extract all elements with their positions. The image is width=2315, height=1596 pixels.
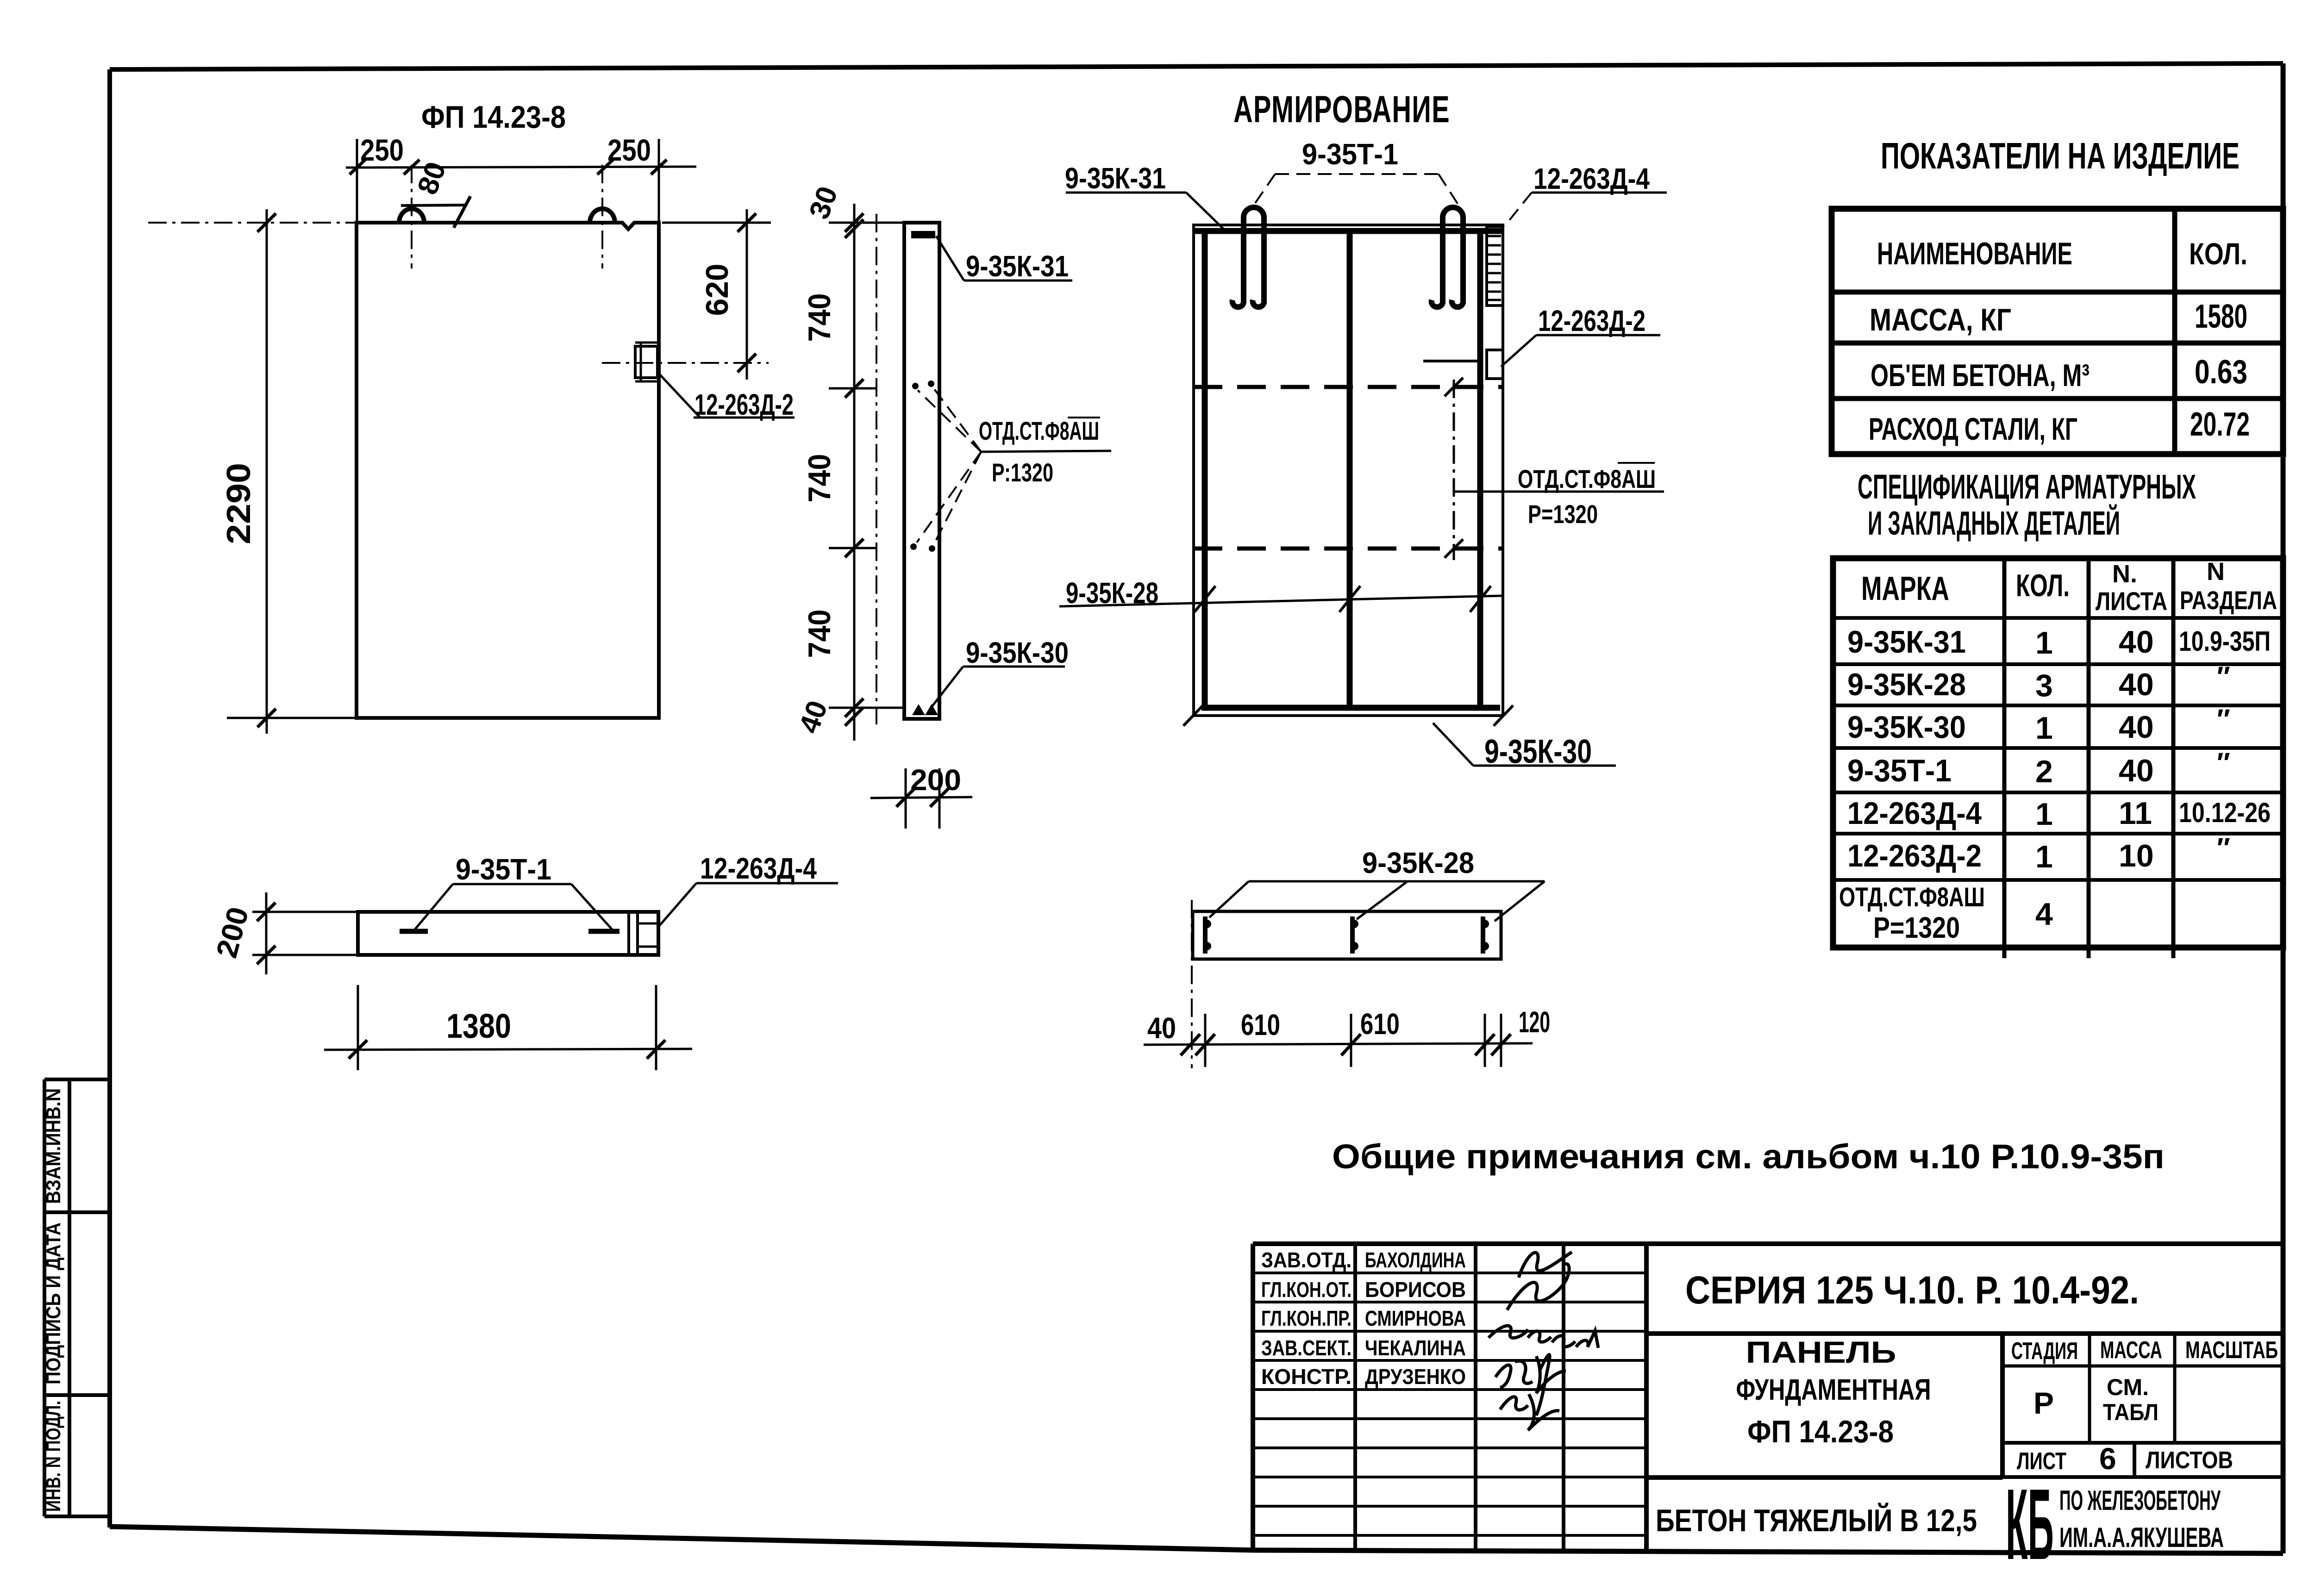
divider under СЕРИЯ — [1646, 1331, 2283, 1336]
page frame bottom — [110, 1527, 2283, 1553]
svg-text:9-35К-28: 9-35К-28 — [1847, 667, 1966, 702]
embed inner line — [640, 343, 642, 381]
lifting loop right — [590, 209, 615, 223]
ext mid1 — [829, 387, 877, 390]
tick — [1181, 1034, 1200, 1055]
svg-text:40: 40 — [2119, 667, 2154, 702]
spec row line — [1833, 832, 2283, 835]
svg-text:10: 10 — [2119, 838, 2154, 873]
tick — [1445, 378, 1463, 396]
svg-text:И ЗАКЛАДНЫХ ДЕТАЛЕЙ: И ЗАКЛАДНЫХ ДЕТАЛЕЙ — [1868, 504, 2120, 542]
dashed bar upper — [1194, 385, 1503, 389]
svg-text:4: 4 — [2035, 897, 2053, 932]
bar dot — [912, 383, 919, 389]
dim 200 line — [265, 892, 268, 974]
АШ overline — [1068, 417, 1100, 418]
axis dashdot — [1191, 900, 1193, 1068]
svg-text:9-35Т-1: 9-35Т-1 — [1302, 137, 1398, 171]
top dim line — [346, 167, 696, 168]
tick — [738, 354, 756, 372]
tick — [1339, 586, 1360, 612]
stadia col 2 — [2173, 1334, 2177, 1443]
tick — [1195, 1034, 1215, 1055]
through line — [1059, 596, 1503, 606]
svg-text:ИМ.А.А.ЯКУШЕВА: ИМ.А.А.ЯКУШЕВА — [2059, 1522, 2224, 1553]
svg-text:КБ: КБ — [2006, 1468, 2054, 1581]
tick — [1445, 539, 1463, 558]
ext — [1484, 1014, 1486, 1067]
svg-text:ТАБЛ: ТАБЛ — [2103, 1399, 2159, 1425]
dashed leader — [933, 388, 981, 452]
ext line right edge — [658, 139, 660, 223]
embed top line — [635, 342, 658, 344]
svg-text:9-35К-31: 9-35К-31 — [1847, 624, 1966, 660]
svg-text:40: 40 — [2119, 753, 2154, 788]
dashed leader — [917, 452, 981, 542]
label underline — [963, 666, 1065, 668]
svg-text:12-263Д-2: 12-263Д-2 — [1538, 304, 1646, 337]
svg-text:ФУНДАМЕНТНАЯ: ФУНДАМЕНТНАЯ — [1736, 1373, 1931, 1406]
plan outline — [1193, 911, 1501, 959]
mesh mark 1 — [1203, 916, 1211, 954]
svg-text:250: 250 — [360, 133, 404, 167]
label underline — [964, 280, 1072, 282]
лист strip bottom — [2002, 1475, 2283, 1479]
svg-text:АРМИРОВАНИЕ: АРМИРОВАНИЕ — [1233, 88, 1450, 131]
mesh mark 3 — [1481, 916, 1489, 954]
stamp strip divider 2 — [44, 1393, 107, 1397]
ext mid2 — [829, 547, 877, 549]
svg-text:9-35К-31: 9-35К-31 — [966, 249, 1069, 283]
tick — [1491, 1034, 1511, 1055]
svg-text:2: 2 — [2035, 754, 2053, 789]
leader underline — [694, 417, 795, 419]
title block top — [1253, 1241, 2283, 1246]
anchor bar left — [400, 929, 428, 934]
svg-text:740: 740 — [802, 454, 837, 503]
dashed leader — [1253, 174, 1275, 206]
mesh К-30 triangle — [925, 704, 938, 715]
svg-text:ЗАВ.СЕКТ.: ЗАВ.СЕКТ. — [1261, 1336, 1351, 1360]
svg-text:БОРИСОВ: БОРИСОВ — [1365, 1278, 1466, 1302]
svg-text:9-35К-28: 9-35К-28 — [1362, 846, 1474, 879]
tick — [257, 213, 276, 232]
svg-text:740: 740 — [802, 610, 837, 658]
tick — [1470, 586, 1491, 612]
dashed label line — [1275, 173, 1439, 175]
svg-text:620: 620 — [700, 264, 735, 316]
embed divider a — [627, 912, 630, 955]
sig row line — [1253, 1388, 1646, 1391]
tick — [845, 213, 863, 232]
svg-text:9-35К-31: 9-35К-31 — [1065, 162, 1166, 195]
col line — [2172, 209, 2177, 454]
svg-text:МАССА, КГ: МАССА, КГ — [1870, 302, 2011, 337]
tick — [257, 946, 275, 964]
АШ overline — [1618, 462, 1655, 464]
label underline — [696, 882, 838, 885]
svg-text:ОБ'ЕМ БЕТОНА, М³: ОБ'ЕМ БЕТОНА, М³ — [1871, 358, 2090, 393]
stamp strip top line — [44, 1078, 107, 1081]
svg-text:ЛИСТА: ЛИСТА — [2096, 586, 2167, 616]
mesh К-30 triangle — [912, 704, 925, 715]
dashed bar lower — [1194, 547, 1503, 551]
leader 12-263Д-2 — [659, 374, 700, 418]
tick — [1195, 586, 1215, 612]
dashed leader — [933, 452, 981, 545]
svg-text:БЕТОН ТЯЖЕЛЫЙ В 12,5: БЕТОН ТЯЖЕЛЫЙ В 12,5 — [1656, 1502, 1977, 1538]
svg-text:ОТД.СТ.Ф8АШ: ОТД.СТ.Ф8АШ — [1839, 882, 1985, 912]
label underline — [1536, 334, 1660, 337]
leader — [415, 884, 453, 929]
ext 200 right — [939, 768, 941, 829]
spec table frame — [1833, 558, 2283, 948]
ext — [1350, 1014, 1352, 1067]
svg-text:СМИРНОВА: СМИРНОВА — [1365, 1306, 1466, 1330]
panel outline thin — [1194, 225, 1503, 716]
svg-text:11: 11 — [2119, 796, 2152, 831]
svg-text:1580: 1580 — [2195, 298, 2247, 335]
tick — [930, 788, 949, 807]
label underline — [1066, 192, 1186, 194]
mesh right bar — [1477, 228, 1483, 711]
leader — [1501, 335, 1536, 367]
svg-text:СТАДИЯ: СТАДИЯ — [2011, 1338, 2078, 1365]
svg-text:12-263Д-4: 12-263Д-4 — [1533, 162, 1650, 195]
svg-text:ФП 14.23-8: ФП 14.23-8 — [421, 100, 566, 135]
embed divider b — [636, 912, 639, 955]
label underline — [1473, 765, 1616, 767]
col line — [1353, 1244, 1357, 1550]
svg-text:ПОКАЗАТЕЛИ НА ИЗДЕЛИЕ: ПОКАЗАТЕЛИ НА ИЗДЕЛИЕ — [1881, 135, 2240, 176]
tick — [257, 903, 275, 921]
svg-text:СМ.: СМ. — [2107, 1374, 2149, 1400]
leader — [936, 236, 964, 281]
divider name/stadia — [2000, 1334, 2005, 1477]
ext — [252, 954, 358, 956]
tick — [647, 1040, 665, 1059]
label line — [1249, 880, 1545, 883]
top right ext — [662, 222, 771, 224]
tick — [597, 160, 613, 175]
stamp strip bottom line — [44, 1515, 107, 1518]
svg-text:200: 200 — [910, 763, 961, 797]
svg-text:КОНСТР.: КОНСТР. — [1261, 1365, 1351, 1389]
tick — [404, 160, 419, 175]
embed bottom line — [635, 380, 658, 383]
leader — [1209, 881, 1249, 917]
mesh top bar К-31 — [1194, 228, 1503, 234]
leader — [571, 884, 612, 929]
stamp strip divider 1 — [44, 1210, 107, 1214]
svg-text:КОЛ.: КОЛ. — [2189, 237, 2247, 271]
col line — [1644, 1244, 1649, 1552]
svg-text:1: 1 — [2035, 711, 2053, 746]
svg-text:ДРУЗЕНКО: ДРУЗЕНКО — [1365, 1365, 1466, 1389]
label underline — [1532, 192, 1667, 194]
svg-text:ЗАВ.ОТД.: ЗАВ.ОТД. — [1261, 1248, 1351, 1272]
svg-text:ПО ЖЕЛЕЗОБЕТОНУ: ПО ЖЕЛЕЗОБЕТОНУ — [2059, 1485, 2221, 1516]
svg-text:12-263Д-2: 12-263Д-2 — [694, 388, 794, 421]
tick — [1341, 1034, 1361, 1055]
leader — [1357, 881, 1408, 919]
embed line — [638, 946, 658, 948]
embed line — [638, 923, 658, 925]
svg-text:Р=1320: Р=1320 — [1873, 911, 1960, 944]
leader — [1433, 723, 1473, 766]
spec col КОЛ — [2002, 558, 2007, 958]
tick — [845, 379, 863, 398]
svg-text:РАСХОД СТАЛИ, КГ: РАСХОД СТАЛИ, КГ — [1869, 411, 2077, 447]
section dim line — [853, 204, 856, 741]
svg-text:Р: Р — [2033, 1386, 2054, 1420]
svg-text:МАССА: МАССА — [2100, 1337, 2162, 1364]
svg-text:250: 250 — [607, 133, 651, 167]
spec row line — [1833, 791, 2283, 794]
dim 200 line — [870, 797, 972, 798]
svg-text:″: ″ — [2217, 832, 2230, 863]
svg-text:9-35Т-1: 9-35Т-1 — [1847, 753, 1952, 788]
tick — [257, 709, 276, 727]
svg-text:12-263Д-4: 12-263Д-4 — [700, 852, 817, 885]
svg-text:12-263Д-2: 12-263Д-2 — [1847, 838, 1982, 873]
ext line left edge — [356, 139, 358, 223]
лист divider — [2133, 1443, 2136, 1477]
svg-text:0.63: 0.63 — [2195, 354, 2247, 391]
title block left — [1251, 1244, 1255, 1550]
svg-text:40: 40 — [1147, 1011, 1176, 1045]
tick — [845, 698, 863, 717]
svg-text:3: 3 — [2035, 668, 2053, 703]
mesh К-31 cross bar — [911, 231, 935, 238]
tick — [1475, 1034, 1495, 1055]
leader line — [1454, 491, 1664, 493]
svg-text:МАРКА: МАРКА — [1861, 570, 1949, 607]
tick — [738, 213, 756, 232]
row line — [1832, 290, 2283, 295]
spec row line — [1833, 662, 2283, 666]
spec col РАЗДЕЛА — [2171, 558, 2176, 958]
ext 1380 r — [655, 985, 657, 1070]
dashed leader — [918, 390, 981, 452]
divider under name cell — [1646, 1475, 2002, 1480]
svg-text:ПАНЕЛЬ: ПАНЕЛЬ — [1746, 1335, 1896, 1369]
page frame right — [2281, 63, 2286, 1553]
svg-text:1: 1 — [2035, 797, 2053, 832]
dim 80 line — [401, 205, 467, 206]
svg-text:РАЗДЕЛА: РАЗДЕЛА — [2180, 586, 2277, 615]
dim 2290 line — [266, 209, 268, 734]
embed 12-263Д-2 — [1487, 350, 1503, 379]
bar marker dashdot — [1453, 380, 1455, 560]
stamp strip mid line — [68, 1079, 71, 1516]
stadia header underline — [2002, 1365, 2283, 1368]
svg-text:9-35К-30: 9-35К-30 — [966, 636, 1069, 669]
tick — [349, 1040, 367, 1059]
leader — [1495, 881, 1545, 921]
svg-text:1: 1 — [2035, 625, 2053, 661]
bottom ext line — [227, 717, 357, 719]
sig row line — [1253, 1417, 1646, 1420]
label underline — [453, 883, 571, 885]
leader line — [981, 451, 1111, 452]
svg-text:ФП 14.23-8: ФП 14.23-8 — [1747, 1414, 1894, 1449]
svg-text:КОЛ.: КОЛ. — [2016, 568, 2070, 603]
svg-text:ГЛ.КОН.ПР.: ГЛ.КОН.ПР. — [1261, 1306, 1351, 1330]
dim 1380 line — [324, 1049, 692, 1050]
spec row line — [1833, 616, 2283, 620]
svg-text:″: ″ — [2217, 704, 2230, 735]
embed hatching — [1488, 236, 1501, 300]
plan outline — [358, 912, 658, 955]
section outline — [904, 223, 939, 719]
svg-text:1: 1 — [2035, 839, 2053, 874]
corner tick — [1183, 705, 1203, 726]
embed 12-263Д-2 symbol — [635, 346, 657, 378]
pointer line — [1423, 360, 1483, 362]
svg-text:1380: 1380 — [446, 1007, 511, 1045]
bar dot — [929, 545, 935, 552]
tick — [845, 539, 863, 557]
svg-text:9-35Т-1: 9-35Т-1 — [456, 853, 551, 886]
dim 80 tick — [454, 196, 470, 228]
ext 1380 l — [357, 985, 359, 1070]
sig row line — [1253, 1534, 1646, 1537]
tick — [350, 160, 365, 175]
panel top axis dashdot — [148, 222, 357, 224]
ext 200 left — [905, 768, 907, 829]
sig row line — [1253, 1301, 1646, 1303]
lifting loop 2 — [1432, 207, 1463, 307]
svg-text:610: 610 — [1241, 1008, 1280, 1041]
anchor bar right — [588, 929, 619, 934]
svg-text:ОТД.СТ.Ф8АШ: ОТД.СТ.Ф8АШ — [979, 416, 1099, 445]
svg-text:ГЛ.КОН.ОТ.: ГЛ.КОН.ОТ. — [1261, 1278, 1351, 1302]
ext bottom — [829, 707, 905, 709]
dim 620 line — [746, 209, 748, 380]
svg-text:40: 40 — [2119, 624, 2154, 660]
ext — [1500, 1014, 1502, 1067]
svg-text:ЧЕКАЛИНА: ЧЕКАЛИНА — [1365, 1336, 1466, 1360]
svg-text:СЕРИЯ 125 Ч.10. Р. 10.4-92.: СЕРИЯ 125 Ч.10. Р. 10.4-92. — [1685, 1268, 2139, 1312]
sig row line — [1253, 1272, 1646, 1274]
bar dot — [910, 543, 917, 550]
svg-text:2290: 2290 — [220, 463, 257, 544]
bar dot — [928, 380, 934, 387]
indicators table frame — [1832, 209, 2283, 454]
svg-text:ПОДПИСЬ И ДАТА: ПОДПИСЬ И ДАТА — [42, 1222, 65, 1384]
spec row line — [1833, 704, 2283, 707]
svg-text:9-35К-30: 9-35К-30 — [1847, 710, 1966, 745]
sig row line — [1253, 1476, 1646, 1478]
handwritten signatures — [1489, 1252, 1598, 1430]
tick — [845, 707, 863, 726]
embed 12-263Д-4 hatched bar — [1487, 226, 1503, 305]
stadia col 1 — [2088, 1334, 2091, 1443]
panel outline — [357, 223, 659, 718]
svg-text:120: 120 — [1519, 1005, 1550, 1039]
sig row line — [1253, 1359, 1646, 1362]
ext — [1204, 1014, 1207, 1067]
svg-text:10.12-26: 10.12-26 — [2179, 797, 2271, 828]
leader — [659, 883, 696, 926]
лист strip top — [2002, 1441, 2283, 1445]
loop axis left — [411, 165, 413, 268]
mesh mark 2 — [1350, 916, 1358, 954]
col line — [1562, 1244, 1565, 1550]
svg-text:Р:1320: Р:1320 — [992, 458, 1053, 487]
corner tick — [1494, 705, 1513, 726]
page frame left — [107, 69, 112, 1527]
mesh middle bar — [1347, 228, 1353, 711]
dim line — [1144, 1043, 1533, 1045]
svg-text:N.: N. — [2112, 560, 2137, 588]
svg-text:740: 740 — [802, 293, 837, 342]
page frame top — [110, 63, 2283, 69]
stamp strip left line — [43, 1079, 46, 1516]
section axis dashdot — [876, 214, 877, 724]
lifting loop 1 — [1233, 207, 1264, 307]
leader — [1186, 193, 1225, 230]
svg-text:ЛИСТОВ: ЛИСТОВ — [2146, 1447, 2233, 1474]
dashed leader — [1439, 174, 1459, 206]
tick — [651, 160, 667, 175]
svg-text:НАИМЕНОВАНИЕ: НАИМЕНОВАНИЕ — [1877, 236, 2072, 271]
svg-text:БАХОЛДИНА: БАХОЛДИНА — [1365, 1248, 1466, 1272]
svg-text:ИНВ. N ПОДЛ.: ИНВ. N ПОДЛ. — [42, 1401, 65, 1512]
mesh left bar — [1202, 228, 1208, 711]
lifting loop left — [399, 209, 424, 223]
svg-text:Общие примечания см. альбом: Общие примечания см. альбом ч.10 Р.10.9-… — [1332, 1137, 2165, 1176]
sig row line — [1253, 1505, 1646, 1508]
ext — [252, 911, 358, 913]
svg-text:N: N — [2207, 558, 2225, 586]
svg-text:ОТД.СТ.Ф8АШ: ОТД.СТ.Ф8АШ — [1518, 464, 1656, 493]
row line — [1832, 341, 2283, 346]
embed axis dashdot — [602, 362, 769, 364]
spec row line — [1833, 878, 2283, 882]
svg-text:″: ″ — [2217, 661, 2230, 692]
tick — [896, 788, 915, 807]
svg-text:″: ″ — [2217, 747, 2230, 778]
spec col ЛИСТА — [2087, 558, 2091, 958]
ext top — [829, 222, 905, 224]
leader — [931, 667, 963, 708]
sig row line — [1253, 1330, 1646, 1333]
spec row line — [1833, 746, 2283, 750]
svg-text:МАСШТАБ: МАСШТАБ — [2185, 1337, 2278, 1364]
svg-text:СПЕЦИФИКАЦИЯ АРМАТУРНЫХ: СПЕЦИФИКАЦИЯ АРМАТУРНЫХ — [1858, 468, 2196, 506]
loop axis right — [601, 165, 603, 268]
sig row line — [1253, 1446, 1646, 1449]
svg-text:12-263Д-4: 12-263Д-4 — [1847, 796, 1982, 831]
mesh bottom bar К-30 — [1201, 705, 1500, 711]
dashed leader — [1505, 193, 1532, 226]
svg-text:10.9-35П: 10.9-35П — [2179, 626, 2271, 657]
svg-text:6: 6 — [2099, 1441, 2116, 1476]
svg-text:20.72: 20.72 — [2190, 406, 2250, 443]
col line — [1474, 1244, 1477, 1550]
svg-text:ВЗАМ.ИНВ.N: ВЗАМ.ИНВ.N — [42, 1088, 65, 1204]
svg-text:Р=1320: Р=1320 — [1528, 499, 1598, 529]
svg-text:610: 610 — [1360, 1007, 1400, 1041]
tick — [845, 219, 863, 238]
row line — [1832, 396, 2283, 401]
svg-text:40: 40 — [2119, 710, 2154, 745]
